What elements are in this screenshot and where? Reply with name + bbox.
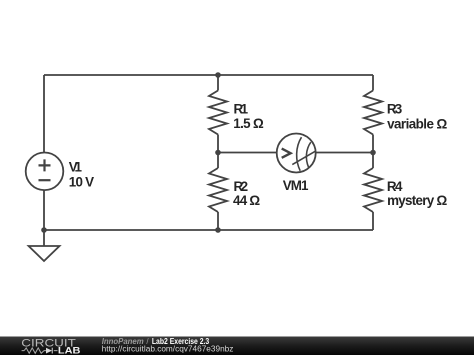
logo diode glyph bbox=[46, 348, 52, 354]
svg-text:LAB: LAB bbox=[58, 345, 81, 355]
wire R2 top lead bbox=[217, 153, 219, 169]
logo schematic wire bbox=[22, 350, 58, 352]
node top junction bbox=[215, 72, 221, 78]
ground stem bbox=[43, 230, 45, 246]
svg-text:R2: R2 bbox=[234, 179, 249, 194]
wire R2 bottom lead bbox=[217, 212, 219, 230]
ground bbox=[29, 246, 60, 261]
resistor R3 bbox=[364, 91, 382, 135]
svg-text:1.5 Ω: 1.5 Ω bbox=[233, 116, 264, 131]
wire R1 top lead bbox=[217, 75, 219, 91]
svg-text:R4: R4 bbox=[387, 179, 403, 194]
wire R4 bottom lead bbox=[372, 212, 374, 230]
node middle left junction bbox=[215, 150, 221, 156]
svg-text:R3: R3 bbox=[387, 101, 402, 116]
node bottom junction bbox=[215, 227, 221, 233]
V1 plus sign bbox=[39, 159, 51, 171]
wire R3 top lead bbox=[372, 75, 374, 91]
svg-text:10 V: 10 V bbox=[69, 174, 94, 189]
svg-text:VM1: VM1 bbox=[283, 178, 309, 193]
svg-text:V1: V1 bbox=[69, 160, 83, 175]
node ground junction bbox=[41, 227, 47, 233]
svg-text:http://circuitlab.com/cqv7467e: http://circuitlab.com/cqv7467e39nbz bbox=[102, 344, 234, 353]
wire bottom rail bbox=[44, 229, 373, 231]
svg-text:R1: R1 bbox=[234, 101, 249, 116]
wire middle right (VM1 to node) bbox=[316, 152, 373, 154]
wire left vertical top (V1 to top rail) bbox=[43, 75, 45, 153]
wire R4 top lead bbox=[372, 153, 374, 169]
VM1 dial arc 2 bbox=[306, 142, 310, 167]
logo resistor glyph bbox=[24, 348, 44, 353]
VM1 needle bbox=[292, 151, 315, 164]
resistor R1 bbox=[209, 91, 227, 135]
wire middle left (node to VM1) bbox=[218, 152, 277, 154]
svg-text:44 Ω: 44 Ω bbox=[233, 193, 260, 208]
wire R1 bottom lead bbox=[217, 135, 219, 153]
wire R3 bottom lead bbox=[372, 135, 374, 153]
node middle right junction bbox=[370, 150, 376, 156]
VM1 chevron bbox=[282, 149, 291, 158]
footer bar bbox=[0, 337, 474, 355]
resistor R4 bbox=[364, 168, 382, 212]
voltage source V1 bbox=[26, 153, 64, 191]
voltmeter VM1 bbox=[277, 134, 316, 173]
V1 minus sign bbox=[39, 179, 51, 181]
svg-text:mystery Ω: mystery Ω bbox=[387, 193, 447, 208]
wire top rail bbox=[44, 74, 373, 76]
VM1 dial arc 1 bbox=[297, 137, 302, 171]
resistor R2 bbox=[209, 168, 227, 212]
svg-text:variable Ω: variable Ω bbox=[387, 117, 447, 132]
wire left vertical bottom (V1 to bottom rail) bbox=[43, 190, 45, 230]
